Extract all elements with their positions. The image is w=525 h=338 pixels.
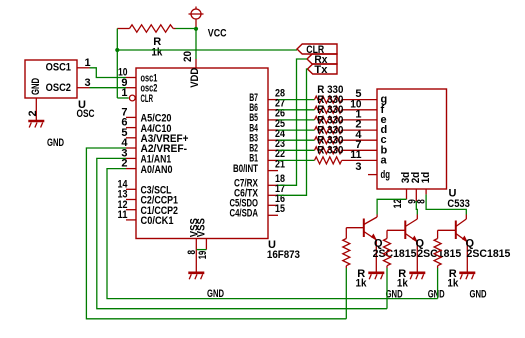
node VCC junction dot	[194, 27, 198, 31]
svg-text:VSS: VSS	[196, 218, 208, 237]
svg-text:1d: 1d	[420, 172, 432, 184]
wire R to seg a	[342, 159, 377, 161]
wire B4 to R	[278, 129, 315, 131]
left pin numbers	[118, 67, 129, 221]
wire B2 to R	[278, 149, 315, 151]
svg-text:15: 15	[275, 203, 285, 215]
wire pin19 to pin8	[196, 249, 206, 251]
left pin stubs	[126, 117, 136, 219]
resistor R10 1k base Q2	[384, 230, 391, 268]
svg-text:B0/INT: B0/INT	[233, 163, 258, 175]
ground symbol Q1	[368, 273, 384, 280]
pin 19 stub VSS bottom	[205, 239, 207, 250]
svg-text:CLR: CLR	[141, 93, 154, 105]
svg-text:1k: 1k	[151, 47, 163, 59]
wire B5 to R	[278, 119, 315, 121]
resistor R1 1k pull-up	[117, 25, 175, 32]
pin 8 stub VSS bottom	[195, 239, 197, 250]
svg-text:GND: GND	[470, 289, 487, 301]
svg-text:19: 19	[197, 251, 209, 260]
wire CLR to MCLR pin	[117, 97, 128, 99]
resistor R7 330	[315, 147, 342, 154]
svg-text:2: 2	[121, 158, 127, 170]
wire Tx net	[278, 69, 308, 195]
svg-text:3: 3	[355, 161, 361, 173]
wire B1 to R	[278, 159, 315, 161]
wire R to seg e	[342, 119, 377, 121]
svg-text:A0/AN0: A0/AN0	[141, 164, 173, 176]
7-segment display U2 C533 body	[377, 89, 447, 189]
ground symbol PIC	[188, 273, 204, 280]
wire display d2 to Q2 collector	[416, 201, 417, 215]
IC U1 PIC16F873 body	[136, 68, 268, 239]
svg-text:1: 1	[121, 87, 127, 99]
svg-text:Tx: Tx	[314, 64, 328, 76]
wire VCC to VDD pin	[195, 29, 197, 59]
wire R1 to VCC junction	[176, 28, 197, 30]
pin 9 stub osc2	[126, 87, 136, 89]
svg-text:11: 11	[350, 149, 361, 161]
wire R to seg d	[342, 129, 377, 131]
svg-text:3: 3	[85, 77, 91, 89]
pin 12 stub display digit3	[406, 189, 408, 199]
wire display d1 to Q3 collector	[426, 194, 466, 214]
svg-text:a: a	[381, 154, 388, 166]
wire A2 pin4 to Q1 base bus	[86, 148, 346, 319]
flag net label CLR	[297, 44, 337, 56]
svg-text:11: 11	[118, 209, 128, 221]
svg-text:OSC1: OSC1	[46, 62, 71, 74]
wire R to seg b	[342, 149, 377, 151]
wire B7 to R	[278, 99, 315, 101]
right pin names	[230, 92, 259, 220]
svg-text:2SC1815: 2SC1815	[373, 248, 417, 260]
svg-text:OSC2: OSC2	[46, 82, 71, 94]
svg-text:2: 2	[27, 110, 39, 116]
svg-text:1k: 1k	[356, 278, 368, 290]
wire OSC2 to osc2	[90, 87, 127, 89]
wire pin8 to ground	[195, 250, 197, 272]
svg-text:C4/SDA: C4/SDA	[230, 208, 259, 220]
resistor R8 330	[315, 157, 342, 164]
svg-text:C533: C533	[447, 198, 470, 210]
ground symbol Q3	[459, 273, 475, 280]
wire R to seg c	[342, 139, 377, 141]
wire B3 to R	[278, 139, 315, 141]
wire OSC1 to osc1	[90, 68, 127, 78]
transistor Q3 2SC1815	[438, 215, 468, 273]
svg-text:12: 12	[392, 199, 404, 209]
wire Rx net	[278, 59, 307, 185]
svg-text:GND: GND	[30, 78, 42, 95]
pin 8 stub display digit1	[425, 189, 427, 194]
segment resistors R330 x7 with wires	[278, 84, 377, 103]
svg-text:20: 20	[182, 51, 194, 62]
wire R to seg g	[342, 99, 377, 101]
wire A1 pin3 to Q2 base bus	[97, 158, 387, 308]
node CLR junction dot	[115, 48, 119, 52]
svg-text:R 330: R 330	[317, 145, 343, 157]
pin 2 stub OSC GND	[35, 98, 37, 121]
right pin numbers	[275, 87, 286, 215]
pin 3 stub dg	[368, 174, 377, 176]
oscillator module U-OSC	[25, 60, 77, 98]
svg-text:16F873: 16F873	[267, 249, 300, 261]
svg-text:2SC1815: 2SC1815	[467, 248, 511, 260]
ground symbol Q2	[409, 273, 425, 280]
svg-text:1k: 1k	[447, 278, 459, 290]
VCC power symbol	[189, 7, 204, 29]
pin 1 CLR inversion bubble	[129, 95, 135, 101]
wire R9 to bus A2	[345, 268, 347, 319]
resistor R3 330	[315, 106, 342, 113]
flag net label Rx	[307, 54, 337, 66]
flag net label Tx	[308, 64, 338, 76]
pin 3 stub OSC2	[77, 87, 90, 89]
wire CLR net horizontal to flag	[117, 49, 297, 51]
svg-text:VDD: VDD	[189, 68, 201, 88]
resistor R4 330	[315, 116, 342, 123]
resistor R2 330	[315, 96, 342, 103]
wire R10 to bus A1	[386, 268, 388, 309]
svg-text:GND: GND	[47, 137, 64, 149]
left pin names	[141, 73, 189, 228]
svg-text:C0/CK1: C0/CK1	[141, 215, 174, 227]
pin 1 stub OSC1	[77, 67, 90, 69]
wire display d3 to Q1 collector	[377, 199, 406, 214]
pin 9 stub display digit2	[415, 189, 417, 201]
wire CLR net vertical	[116, 29, 118, 99]
ground symbol OSC	[28, 121, 44, 128]
wire B6 to R	[278, 109, 315, 111]
svg-text:OSC: OSC	[77, 108, 95, 120]
pin 20 stub VDD	[195, 59, 197, 68]
resistor R6 330	[315, 137, 342, 144]
transistor Q2 2SC1815	[387, 215, 418, 273]
wire R11 to bus A0	[437, 268, 439, 299]
transistor Q1 2SC1815	[346, 215, 377, 273]
svg-text:1k: 1k	[397, 278, 409, 290]
resistor R5 330	[315, 127, 342, 134]
right pin stubs	[268, 100, 278, 216]
wire A0 pin2 to Q3 base bus	[107, 169, 438, 299]
resistor R11 1k base Q3	[434, 230, 441, 268]
svg-text:dg: dg	[381, 169, 391, 181]
wire R to seg f	[342, 109, 377, 111]
pin 10 stub osc1	[126, 77, 136, 79]
resistor R9 1k base Q1	[343, 228, 350, 268]
svg-text:VCC: VCC	[208, 28, 227, 40]
